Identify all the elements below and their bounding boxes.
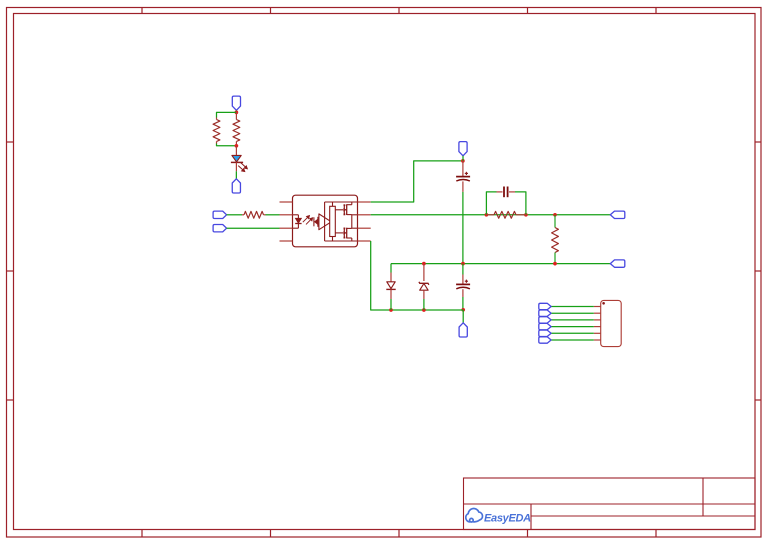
junction [485, 213, 489, 217]
wire [462, 156, 464, 161]
wire [391, 263, 610, 265]
svg-text:EasyEDA: EasyEDA [484, 513, 531, 525]
wire [390, 299, 392, 310]
port NET3 [539, 317, 551, 323]
resistor R1 [235, 112, 237, 119]
junction [422, 308, 426, 312]
wire [227, 214, 242, 216]
wire [551, 306, 594, 308]
junction [524, 213, 528, 217]
wire [486, 192, 496, 215]
pin P4 [459, 323, 467, 337]
wire [462, 264, 464, 275]
pin P3 [459, 142, 467, 156]
wire [390, 264, 392, 273]
port NET1 [539, 303, 551, 309]
connector J1 [601, 300, 622, 346]
wire [371, 161, 463, 202]
resistor R2 [216, 118, 218, 120]
LED D3 [235, 146, 237, 156]
junction [553, 213, 557, 217]
resistor R3 [242, 214, 244, 216]
junction [461, 262, 465, 266]
wire [551, 339, 594, 341]
wire [217, 112, 237, 117]
wire [371, 214, 611, 216]
wire [371, 241, 464, 310]
diode D2 zener [423, 264, 425, 281]
wire [423, 299, 425, 310]
wire [235, 110, 237, 112]
J1 pin 2 stub [594, 312, 601, 314]
op-amp U1 solid-state-relay [293, 195, 358, 247]
resistor R5 [554, 215, 556, 228]
pin P2 [232, 179, 240, 193]
J1 pin 6 stub [594, 339, 601, 341]
wire [551, 312, 594, 314]
J1 pin 1 stub [594, 306, 601, 308]
junction [461, 159, 465, 163]
J1 pin 5 stub [594, 332, 601, 334]
junction [553, 262, 557, 266]
port NET5 [539, 330, 551, 336]
diode D1 [390, 273, 392, 282]
pin P1 [232, 96, 240, 110]
port OUT1 [610, 211, 625, 218]
title block [464, 478, 756, 530]
junction [389, 308, 393, 312]
wire [217, 144, 237, 146]
wire [227, 227, 280, 229]
port NET6 [539, 337, 551, 343]
wire [462, 192, 464, 264]
port IN2 [213, 225, 227, 232]
wire [462, 297, 464, 310]
capacitor C3 [462, 275, 464, 285]
port NET4 [539, 323, 551, 329]
J1 pin 4 stub [594, 326, 601, 328]
J1 pin 3 stub [594, 319, 601, 321]
port IN1 [213, 211, 227, 218]
capacitor C2 [497, 191, 503, 193]
wire [551, 319, 594, 321]
port NET2 [539, 310, 551, 316]
junction [422, 262, 426, 266]
wire [551, 332, 594, 334]
wire [551, 326, 594, 328]
junction [235, 144, 239, 148]
junction [235, 111, 239, 115]
capacitor C1 [462, 161, 464, 177]
wire [235, 171, 237, 179]
wire [266, 214, 280, 216]
resistor R4 [486, 214, 494, 216]
junction [461, 308, 465, 312]
EasyEDA logo [466, 509, 483, 522]
wire [462, 310, 464, 323]
port OUT2 [610, 260, 625, 267]
wire [515, 192, 526, 215]
